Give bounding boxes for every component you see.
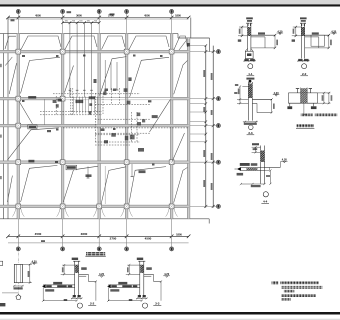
left edge partial marks	[0, 261, 3, 265]
beam annotation smudges	[76, 100, 84, 103]
svg-text:4-4: 4-4	[263, 199, 268, 203]
cluster small column blocks	[53, 100, 57, 103]
bottom-left column elevation detail	[2, 253, 37, 300]
svg-text:2700: 2700	[108, 13, 114, 17]
top dimension line	[8, 17, 189, 19]
top axis extensions and bubbles	[17, 14, 19, 34]
floor plan outline thin edges	[0, 18, 210, 224]
detail slab joint 板缝做法	[287, 88, 337, 129]
bent-bar diagonals in slab bays	[5, 57, 12, 66]
svg-text:2-2: 2-2	[302, 72, 307, 76]
svg-text:4.20: 4.20	[164, 272, 170, 276]
beam label boxes	[28, 125, 37, 129]
svg-text:4.20: 4.20	[274, 91, 280, 95]
columns	[16, 49, 21, 54]
sheet top border bar	[0, 4, 340, 6]
cluster extension bay D-E	[137, 113, 141, 117]
svg-text:3600: 3600	[76, 13, 82, 17]
vertical beams on axes A-F	[17, 34, 20, 219]
svg-text:720: 720	[94, 21, 97, 23]
bottom detail section 3-3	[107, 258, 170, 309]
bottom detail section 2-2	[42, 258, 105, 309]
svg-text:3-3: 3-3	[248, 131, 253, 135]
bottom dimension line	[8, 242, 189, 244]
extra cluster texture left of axis C	[89, 103, 92, 106]
caption 板缝做法平面图	[297, 124, 315, 127]
cluster short sub-beam dashes	[74, 97, 98, 114]
svg-text:720: 720	[79, 21, 82, 23]
notes text block 说明	[272, 281, 279, 284]
detail section 1-1	[238, 17, 283, 75]
svg-text:4.20: 4.20	[99, 272, 105, 276]
svg-text:720: 720	[87, 21, 90, 23]
svg-text:4.20: 4.20	[282, 158, 288, 162]
horizontal beams rows 1-5	[0, 50, 189, 53]
haunch marks below bottom beam	[12, 208, 16, 216]
short rebar marks	[87, 167, 89, 179]
detail section 4-4	[235, 143, 288, 203]
sheet bottom margin	[0, 319, 340, 320]
right dimension lines	[205, 46, 207, 208]
top-right bay corner diagonal	[179, 40, 187, 51]
svg-text:2-2: 2-2	[90, 302, 95, 306]
svg-text:720: 720	[72, 21, 75, 23]
sheet bottom border bar	[0, 312, 340, 315]
svg-text:4500: 4500	[145, 237, 152, 241]
svg-text:4.20: 4.20	[32, 259, 38, 263]
svg-text:3600: 3600	[81, 232, 88, 236]
plan title 二层板配筋图	[86, 252, 105, 255]
svg-text:1800: 1800	[176, 232, 182, 236]
svg-text:720: 720	[65, 21, 68, 23]
detail section 2-2	[292, 17, 337, 75]
top sub-dimension line B-C	[63, 22, 100, 24]
svg-text:4.20: 4.20	[331, 29, 337, 33]
svg-text:2700: 2700	[110, 237, 117, 241]
secondary beam lines between axes B and C	[69, 23, 71, 97]
svg-text:4500: 4500	[144, 13, 150, 17]
svg-text:4500: 4500	[35, 232, 42, 236]
central opening cluster dashed framing	[40, 88, 188, 145]
detail section 3-3	[234, 78, 279, 135]
sheet top margin	[0, 0, 340, 4]
svg-text:3-3: 3-3	[155, 302, 160, 306]
svg-text:4500: 4500	[35, 13, 41, 17]
svg-text:4.20: 4.20	[277, 29, 283, 33]
mid-bay secondary beams	[44, 99, 46, 125]
top strip bent bars	[5, 36, 16, 49]
svg-text:1800: 1800	[175, 13, 181, 17]
svg-text:1-1: 1-1	[248, 72, 253, 76]
